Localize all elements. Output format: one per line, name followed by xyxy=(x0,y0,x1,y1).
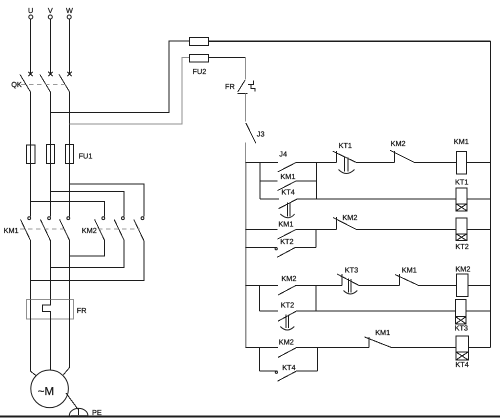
contactor KM1 main pole 3 xyxy=(60,217,70,241)
svg-text:KM2: KM2 xyxy=(279,338,294,347)
wire control tap V to FU2 top xyxy=(50,41,189,113)
svg-text:~M: ~M xyxy=(38,386,54,398)
svg-text:KM1: KM1 xyxy=(4,226,19,235)
wire rung9 segment a xyxy=(259,370,277,372)
fuse FU1 pole 1 xyxy=(26,145,35,164)
svg-text:FR: FR xyxy=(225,82,235,91)
contact KT1 NC time-delayed xyxy=(333,151,356,174)
wire phase W drop to QK xyxy=(69,19,71,73)
wire branch V3 xyxy=(258,348,260,372)
wire rung7 segment a xyxy=(259,310,278,312)
wire phase W through FR box xyxy=(69,300,71,319)
svg-text:V: V xyxy=(48,6,53,15)
contactor KM1 main pole 2 xyxy=(40,217,50,241)
wire right rail xyxy=(490,41,492,348)
contact KM1 NC interlock rung6 xyxy=(395,274,418,285)
ground PE electrode stem xyxy=(77,409,79,416)
wire phase U FU1 to KM1 xyxy=(30,145,32,216)
contactor KM2 mechanical link xyxy=(98,228,140,230)
svg-text:KM1: KM1 xyxy=(454,137,469,146)
wire rung8 segment b xyxy=(296,347,369,349)
wire KM2 pole3 to U xyxy=(31,241,144,281)
svg-text:KM1: KM1 xyxy=(375,328,390,337)
wire rung4 segment b xyxy=(296,228,337,230)
svg-text:KT4: KT4 xyxy=(282,363,295,372)
wire node vertical rung1-rung3 xyxy=(316,162,318,199)
wire FU2 lower to FR xyxy=(209,57,246,59)
wire phase V QK to FU1 xyxy=(49,92,51,145)
wire J3 to left rail xyxy=(245,143,247,163)
fuse FU2 upper xyxy=(189,38,208,46)
wire rung5 segment a xyxy=(246,247,278,249)
svg-text:U: U xyxy=(28,6,33,15)
fuse FU1 pole 3 xyxy=(66,144,74,163)
svg-text:J4: J4 xyxy=(279,149,287,158)
svg-text:KT2: KT2 xyxy=(281,300,294,309)
wire KT4 coil to right rail xyxy=(468,347,490,349)
coil KM2 xyxy=(456,274,468,296)
ground PE electrode dome xyxy=(69,408,88,415)
svg-text:KM1: KM1 xyxy=(280,172,295,181)
contact KT4 (NO) rung9 xyxy=(275,371,296,381)
contactor KM2 main pole 3 xyxy=(134,217,144,241)
wire phase U through FR box xyxy=(30,300,32,319)
wire phase U drop to QK xyxy=(30,19,32,73)
svg-text:KM1: KM1 xyxy=(278,219,293,228)
wire phase W KM1 to FR box xyxy=(69,241,71,300)
ground PE base xyxy=(71,414,88,416)
wire V to KM2 pole 2 xyxy=(50,192,124,217)
contact KT2 NO time-delayed rung7 xyxy=(278,311,296,330)
svg-text:PE: PE xyxy=(92,408,102,417)
breaker QK pole 1 xyxy=(20,72,33,92)
wire branch V1 xyxy=(259,162,261,199)
contact J4 (NO) xyxy=(278,163,296,172)
svg-text:KT1: KT1 xyxy=(339,141,352,150)
wire rung1 segment a xyxy=(246,161,278,163)
svg-text:KT2: KT2 xyxy=(280,237,293,246)
contact KM1 self-hold (NO) xyxy=(278,181,296,191)
wire KT1 coil to right rail xyxy=(467,198,491,200)
fuse FU2 lower xyxy=(189,54,208,62)
coil KT2 (time relay) xyxy=(456,218,467,241)
svg-text:FR: FR xyxy=(77,306,87,315)
wire branch V2 xyxy=(258,285,260,311)
wire phase V FU1 to KM1 xyxy=(49,145,51,217)
contact KM1 (NO) rung4 xyxy=(278,230,296,240)
coil KT3 (time relay) xyxy=(455,300,466,324)
svg-text:KM2: KM2 xyxy=(281,274,296,283)
svg-text:QK: QK xyxy=(11,80,22,89)
wire KM2 coil to right rail xyxy=(468,284,491,286)
wire node vertical rung4-rung5 xyxy=(315,229,317,247)
wire rung5 segment b xyxy=(295,247,316,249)
contactor KM2 main pole 1 xyxy=(95,217,105,241)
coil KM1 xyxy=(456,151,466,173)
switch J3 xyxy=(246,123,256,143)
wire rung2 segment a xyxy=(260,180,277,182)
svg-text:KT4: KT4 xyxy=(455,360,468,369)
wire rung6 segment b xyxy=(296,284,342,286)
svg-text:W: W xyxy=(66,6,73,15)
contact KT3 NC time-delayed xyxy=(337,274,359,294)
svg-text:KT2: KT2 xyxy=(455,242,468,251)
contact KM2 self-hold (NO) rung6 xyxy=(278,285,296,295)
wire rung7 segment b to KT3 coil xyxy=(296,310,455,312)
contactor KM1 main pole 1 xyxy=(21,217,31,241)
wire left rail xyxy=(245,162,247,347)
svg-text:KT4: KT4 xyxy=(281,188,294,197)
svg-text:KT3: KT3 xyxy=(455,324,468,333)
wire node vertical rung8-rung9 xyxy=(317,348,319,372)
wire rung8 segment c xyxy=(392,347,456,349)
node V terminal xyxy=(48,15,52,19)
svg-text:KT3: KT3 xyxy=(345,265,358,274)
motor M xyxy=(31,370,69,408)
wire KT2 coil to right rail xyxy=(467,228,491,230)
wire phase W FR to motor xyxy=(63,319,69,375)
wire rung1 segment c xyxy=(356,161,395,163)
breaker QK pole 2 xyxy=(40,72,53,92)
wire KM1 coil to right rail xyxy=(466,161,490,163)
wire W to KM2 pole 3 xyxy=(70,184,144,217)
wire U to KM2 pole 1 xyxy=(31,201,105,216)
contactor KM1 mechanical link xyxy=(20,228,66,230)
wire node vertical rung6-rung7 xyxy=(315,285,317,311)
fuse FU1 pole 2 xyxy=(46,145,54,164)
wire rung6 segment c xyxy=(359,284,400,286)
node W terminal xyxy=(67,15,71,19)
node U terminal xyxy=(29,15,33,19)
thermal relay FR heater element on V xyxy=(43,300,51,319)
wire rung4 segment c xyxy=(356,228,456,230)
wire phase U QK to FU1 xyxy=(30,92,32,145)
wire rung1 segment d xyxy=(414,161,456,163)
wire phase V FR to motor xyxy=(49,319,51,370)
wire control tap W to FU2 bottom xyxy=(70,58,190,124)
wire KT3 coil to right rail xyxy=(466,310,490,312)
svg-text:KM2: KM2 xyxy=(455,265,470,274)
svg-text:KT1: KT1 xyxy=(455,177,468,186)
wire rung9 segment b xyxy=(296,370,318,372)
contact KM2 NC interlock xyxy=(390,150,414,162)
svg-text:J3: J3 xyxy=(257,130,265,139)
svg-text:KM1: KM1 xyxy=(402,265,417,274)
svg-text:KM2: KM2 xyxy=(82,226,97,235)
wire rung4 segment a xyxy=(246,228,278,230)
wire rung3 segment b to KT1 coil xyxy=(297,198,456,200)
wire phase U KM1 to FR box xyxy=(30,241,32,300)
contact KM2 (NO) rung8 xyxy=(278,348,296,358)
svg-text:KM2: KM2 xyxy=(391,139,406,148)
wire top rail xyxy=(209,40,491,42)
coil KT1 (time relay) xyxy=(456,188,467,211)
breaker QK mechanical link xyxy=(21,84,66,86)
wire rung2 segment b xyxy=(296,180,317,182)
thermal relay FR heater box xyxy=(26,300,73,319)
wire phase W FU1 to KM1 xyxy=(69,144,71,216)
wire KM2 pole1 to W xyxy=(70,241,105,257)
svg-text:KM2: KM2 xyxy=(342,213,357,222)
wire rung6 segment d xyxy=(418,284,456,286)
contact KT2 (NO) rung5 xyxy=(275,248,295,258)
wire rung3 segment a xyxy=(260,198,279,200)
breaker QK pole 3 xyxy=(59,72,72,92)
wire rung6 segment a xyxy=(246,284,278,286)
contact KM2 NC rung4 xyxy=(333,217,356,229)
wire KM2 pole2 to V xyxy=(50,241,124,268)
wire rung1 segment b xyxy=(296,161,337,163)
thermal relay FR NC contact (control) xyxy=(238,80,255,93)
wire rung8 segment a xyxy=(246,347,278,349)
wire drop to FR contact xyxy=(245,58,247,80)
contact KT4 NO time-delayed xyxy=(278,199,296,217)
wire motor to PE earth xyxy=(66,393,78,409)
svg-text:FU2: FU2 xyxy=(193,67,207,76)
contactor KM2 main pole 2 xyxy=(114,217,124,241)
coil KT4 (time relay) xyxy=(456,336,469,360)
wire phase W QK to FU1 xyxy=(69,92,71,144)
svg-text:FU1: FU1 xyxy=(79,151,93,160)
wire phase V KM1 to FR box xyxy=(49,241,51,300)
wire FR to J3 xyxy=(245,93,247,121)
ground earth line xyxy=(0,415,500,417)
wire phase V drop to QK xyxy=(49,19,51,73)
wire phase U FR to motor xyxy=(31,319,37,376)
contact KM1 NC rung8 xyxy=(365,337,392,348)
